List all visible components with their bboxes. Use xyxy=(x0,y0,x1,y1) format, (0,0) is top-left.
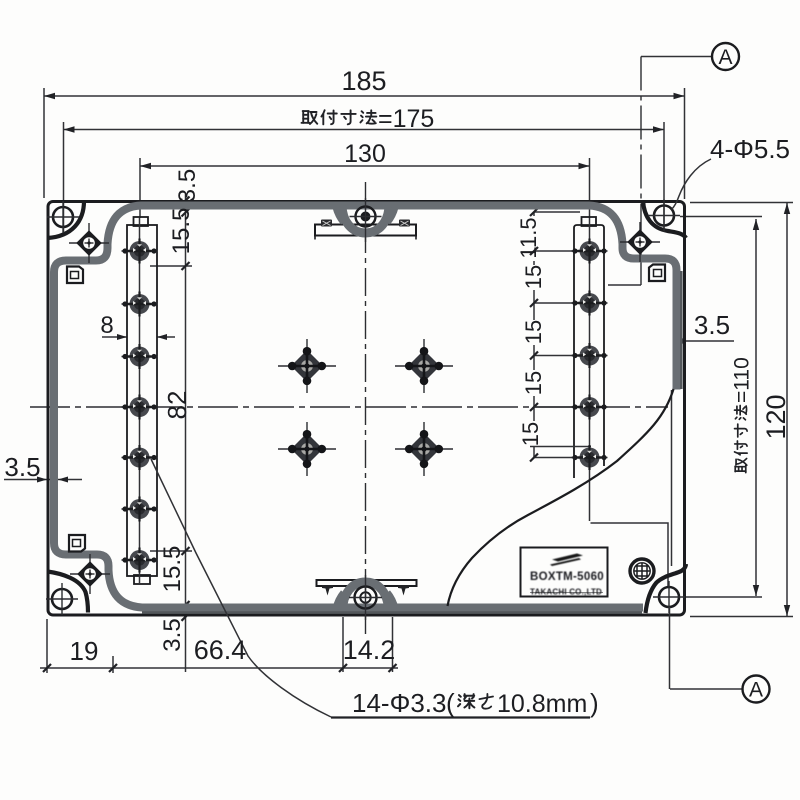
svg-text:8: 8 xyxy=(100,312,113,339)
svg-text:120: 120 xyxy=(761,394,791,439)
svg-text:15: 15 xyxy=(521,320,546,344)
svg-text:185: 185 xyxy=(341,66,386,96)
svg-text:15.5: 15.5 xyxy=(159,546,186,593)
svg-text:A: A xyxy=(718,46,732,69)
svg-text:4-Φ5.5: 4-Φ5.5 xyxy=(710,134,790,164)
svg-text:130: 130 xyxy=(344,140,386,168)
svg-text:66.4: 66.4 xyxy=(194,635,247,665)
svg-text:14-Φ3.3: 14-Φ3.3 xyxy=(352,688,446,718)
svg-text:3.5: 3.5 xyxy=(174,169,201,202)
svg-text:82: 82 xyxy=(162,391,192,420)
svg-text:15.5: 15.5 xyxy=(168,208,195,255)
svg-text:19: 19 xyxy=(70,636,99,666)
svg-text:3.5: 3.5 xyxy=(694,310,730,340)
svg-text:): ) xyxy=(590,688,599,718)
svg-text:11.5: 11.5 xyxy=(516,217,541,258)
svg-text:10.8mm: 10.8mm xyxy=(497,690,587,718)
svg-text:14.2: 14.2 xyxy=(343,635,396,665)
svg-text:=175: =175 xyxy=(378,105,434,133)
svg-text:3.5: 3.5 xyxy=(159,618,186,651)
svg-text:A: A xyxy=(749,679,763,702)
svg-text:15: 15 xyxy=(518,422,543,446)
svg-text:=110: =110 xyxy=(731,357,754,403)
svg-text:(: ( xyxy=(446,688,455,718)
svg-text:BOXTM-5060: BOXTM-5060 xyxy=(530,571,604,583)
svg-text:15: 15 xyxy=(521,265,546,289)
svg-text:15: 15 xyxy=(521,371,546,395)
svg-text:3.5: 3.5 xyxy=(4,452,40,482)
